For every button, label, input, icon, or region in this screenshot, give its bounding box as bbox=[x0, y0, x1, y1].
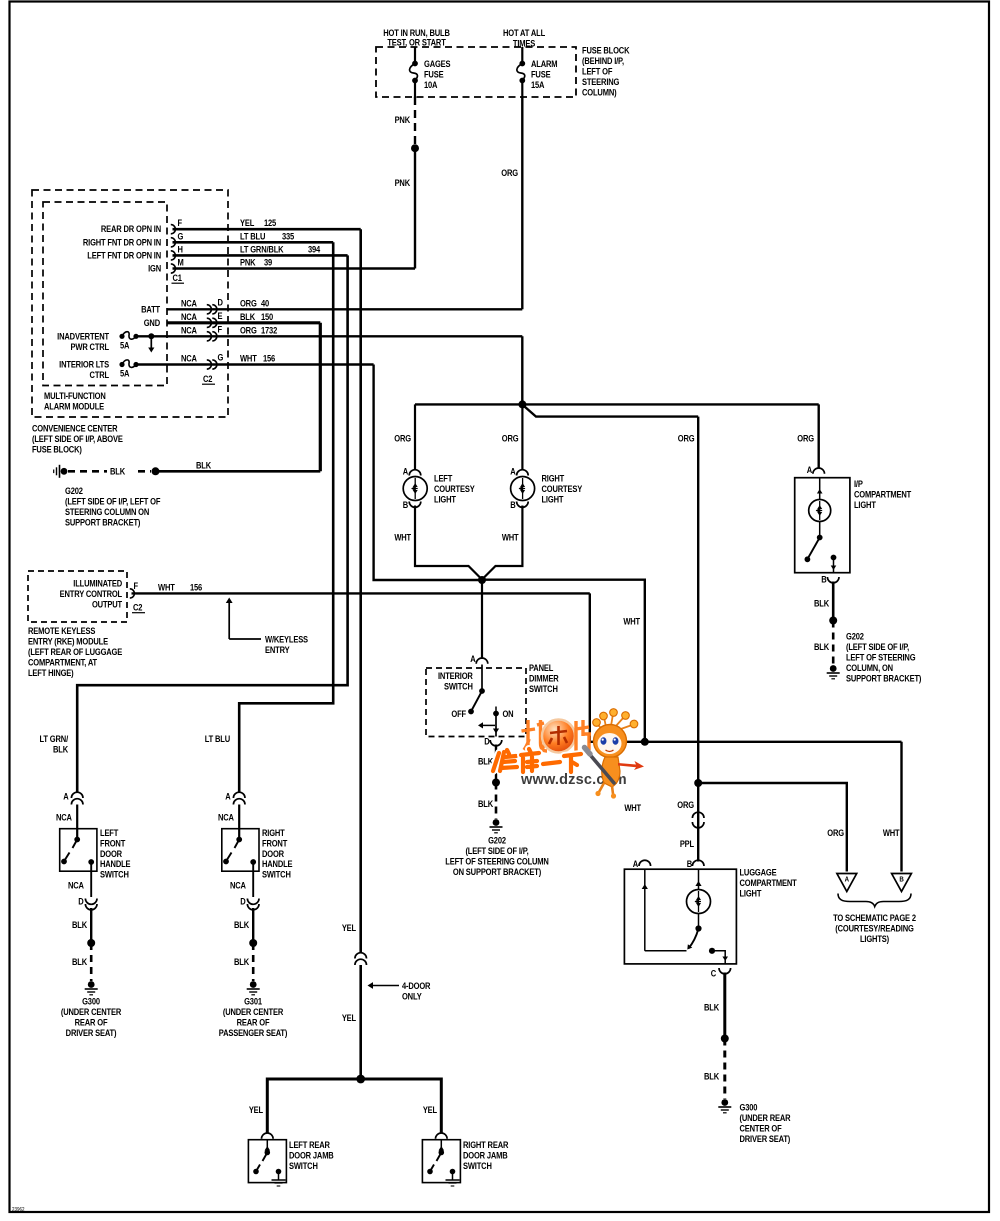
svg-text:MULTI-FUNCTION: MULTI-FUNCTION bbox=[44, 390, 106, 401]
multi-function alarm module inner box (dashed) bbox=[43, 202, 167, 386]
pin B luggage light bbox=[692, 860, 704, 866]
pin F RKE bbox=[130, 589, 135, 598]
svg-text:GAGES: GAGES bbox=[424, 58, 451, 69]
svg-text:ENTRY CONTROL: ENTRY CONTROL bbox=[60, 588, 122, 599]
switch right jamb arm bbox=[440, 1140, 442, 1150]
junction inadvertent branch bbox=[148, 333, 154, 339]
svg-text:394: 394 bbox=[308, 244, 321, 255]
svg-text:BLK: BLK bbox=[234, 956, 249, 967]
svg-text:PASSENGER SEAT): PASSENGER SEAT) bbox=[219, 1027, 288, 1038]
svg-text:(LEFT REAR OF LUGGAGE: (LEFT REAR OF LUGGAGE bbox=[28, 646, 123, 657]
ground G300 luggage bbox=[721, 1099, 728, 1106]
svg-text:5A: 5A bbox=[120, 340, 129, 351]
svg-text:A: A bbox=[403, 466, 408, 477]
wire YEL to jamb switches bbox=[267, 1079, 441, 1134]
wire BLK luggage bbox=[723, 973, 726, 1037]
svg-text:ON SUPPORT BRACKET): ON SUPPORT BRACKET) bbox=[453, 866, 542, 877]
svg-text:SWITCH: SWITCH bbox=[463, 1160, 492, 1171]
convenience center outer box (dashed) bbox=[32, 190, 228, 417]
svg-text:LT GRN/BLK: LT GRN/BLK bbox=[240, 244, 284, 255]
wire PNK vertical bbox=[414, 148, 416, 268]
wire LT BLU vertical and jog bbox=[239, 242, 333, 793]
svg-text:RIGHT REAR: RIGHT REAR bbox=[463, 1139, 508, 1150]
svg-text:A: A bbox=[470, 653, 475, 664]
arrow connector A to page 2 bbox=[837, 874, 857, 892]
pin B right courtesy bbox=[517, 502, 529, 508]
wire WHT junction to right bbox=[482, 580, 645, 742]
svg-text:ORG: ORG bbox=[677, 799, 694, 810]
svg-text:ORG: ORG bbox=[797, 433, 814, 444]
svg-text:A: A bbox=[510, 466, 515, 477]
svg-text:YEL: YEL bbox=[249, 1104, 263, 1115]
svg-text:WHT: WHT bbox=[502, 532, 520, 543]
svg-text:ORG: ORG bbox=[502, 433, 519, 444]
svg-text:DOOR: DOOR bbox=[100, 848, 122, 859]
svg-text:FUSE BLOCK: FUSE BLOCK bbox=[582, 45, 629, 56]
svg-text:GND: GND bbox=[144, 317, 160, 328]
svg-text:125: 125 bbox=[264, 217, 277, 228]
ground G202 interior switch bbox=[493, 819, 500, 826]
wire LT GRN/BLK vertical and jog bbox=[77, 255, 347, 793]
svg-text:(LEFT SIDE OF I/P, LEFT OF: (LEFT SIDE OF I/P, LEFT OF bbox=[65, 496, 160, 507]
svg-text:SWITCH: SWITCH bbox=[100, 869, 129, 880]
svg-text:M: M bbox=[177, 257, 183, 268]
svg-text:W/KEYLESS: W/KEYLESS bbox=[265, 634, 308, 645]
switch I/P light internal bbox=[819, 522, 821, 538]
pin B left courtesy bbox=[409, 502, 421, 508]
junction WHT luggage bbox=[641, 738, 649, 746]
svg-text:BLK: BLK bbox=[478, 798, 493, 809]
wire LT GRN/BLK 394 horizontal bbox=[173, 254, 348, 257]
svg-text:D: D bbox=[240, 896, 245, 907]
wire WHT to interior switch bbox=[481, 580, 483, 659]
svg-text:RIGHT FNT DR OPN IN: RIGHT FNT DR OPN IN bbox=[83, 237, 161, 248]
svg-text:D: D bbox=[217, 297, 222, 308]
svg-text:NCA: NCA bbox=[218, 812, 234, 823]
junction splice I/P BLK bbox=[829, 617, 837, 625]
svg-text:ORG: ORG bbox=[394, 433, 411, 444]
svg-text:10A: 10A bbox=[424, 79, 437, 90]
pin D left door handle switch bbox=[85, 899, 97, 905]
ground contact right jamb bbox=[450, 1169, 456, 1175]
svg-text:HANDLE: HANDLE bbox=[262, 858, 293, 869]
wire to left door handle switch bbox=[76, 805, 78, 840]
svg-text:156: 156 bbox=[190, 582, 203, 593]
svg-text:HANDLE: HANDLE bbox=[100, 858, 131, 869]
svg-text:WHT: WHT bbox=[158, 582, 176, 593]
wire luggage pin A internal bbox=[644, 869, 646, 951]
wire ORG branch to arrow A bbox=[698, 783, 847, 872]
I/P compartment light box bbox=[795, 478, 850, 573]
svg-text:ORG: ORG bbox=[827, 827, 844, 838]
svg-text:LT GRN/: LT GRN/ bbox=[40, 733, 69, 744]
svg-text:(UNDER REAR: (UNDER REAR bbox=[740, 1112, 791, 1123]
svg-text:G300: G300 bbox=[740, 1102, 758, 1113]
svg-text:LEFT REAR: LEFT REAR bbox=[289, 1139, 330, 1150]
svg-text:B: B bbox=[687, 858, 692, 869]
svg-text:156: 156 bbox=[263, 353, 276, 364]
ground G300 left door bbox=[88, 981, 95, 988]
svg-text:NCA: NCA bbox=[230, 880, 246, 891]
junction splice luggage BLK bbox=[721, 1035, 729, 1043]
svg-text:G202: G202 bbox=[65, 485, 83, 496]
svg-text:WHT: WHT bbox=[240, 353, 258, 364]
svg-text:YEL: YEL bbox=[423, 1104, 437, 1115]
svg-text:CENTER OF: CENTER OF bbox=[740, 1123, 782, 1134]
svg-text:COURTESY: COURTESY bbox=[542, 483, 583, 494]
svg-text:G301: G301 bbox=[244, 996, 262, 1007]
pin A interior switch bbox=[476, 658, 488, 664]
svg-text:DIMMER: DIMMER bbox=[529, 673, 559, 684]
svg-text:COLUMN): COLUMN) bbox=[582, 87, 617, 98]
svg-text:BLK: BLK bbox=[72, 919, 87, 930]
wire BLK 150 vertical to G202 bbox=[319, 323, 322, 472]
svg-text:COMPARTMENT: COMPARTMENT bbox=[854, 489, 912, 500]
svg-text:BLK: BLK bbox=[704, 1071, 719, 1082]
junction WHT courtesy bbox=[478, 576, 486, 584]
junction splice right door BLK bbox=[249, 939, 257, 947]
pin A left courtesy bbox=[409, 470, 421, 476]
wire inadvertent to pin F bbox=[138, 335, 522, 337]
svg-text:BLK: BLK bbox=[814, 641, 829, 652]
svg-text:YEL: YEL bbox=[342, 1012, 356, 1023]
svg-text:REMOTE KEYLESS: REMOTE KEYLESS bbox=[28, 625, 96, 636]
wire ORG to I/P compartment light bbox=[818, 404, 820, 468]
wire YEL vertical lower bbox=[359, 965, 362, 1079]
svg-text:G202: G202 bbox=[846, 631, 864, 642]
svg-text:PNK: PNK bbox=[395, 114, 411, 125]
svg-text:F: F bbox=[177, 217, 181, 228]
wire ORG bus horizontal bbox=[415, 403, 819, 405]
svg-text:5A: 5A bbox=[120, 368, 129, 379]
junction ORG bus bbox=[518, 400, 526, 408]
wire BLK dashed I/P bbox=[832, 621, 835, 666]
wire BLK left door bbox=[90, 908, 92, 941]
svg-text:STEERING: STEERING bbox=[582, 76, 620, 87]
svg-text:(UNDER CENTER: (UNDER CENTER bbox=[223, 1006, 283, 1017]
wire interior switch to pin D bbox=[495, 714, 497, 737]
svg-text:REAR DR OPN IN: REAR DR OPN IN bbox=[101, 223, 161, 234]
svg-text:LIGHTS): LIGHTS) bbox=[860, 933, 889, 944]
switch right door handle arm bbox=[236, 837, 242, 843]
svg-text:B: B bbox=[403, 499, 408, 510]
svg-text:ENTRY (RKE) MODULE: ENTRY (RKE) MODULE bbox=[28, 636, 108, 647]
wire BLK solid to module bbox=[156, 470, 321, 473]
svg-text:COURTESY: COURTESY bbox=[434, 483, 475, 494]
svg-text:SUPPORT BRACKET): SUPPORT BRACKET) bbox=[65, 517, 141, 528]
svg-text:NCA: NCA bbox=[181, 298, 197, 309]
pin A I/P light bbox=[813, 468, 825, 474]
svg-text:ORG: ORG bbox=[501, 167, 518, 178]
svg-text:23962: 23962 bbox=[12, 1207, 25, 1214]
svg-text:LEFT OF: LEFT OF bbox=[582, 66, 612, 77]
contact ON bbox=[493, 711, 499, 717]
svg-text:ALARM: ALARM bbox=[531, 58, 558, 69]
svg-text:LUGGAGE: LUGGAGE bbox=[740, 867, 777, 878]
svg-text:SWITCH: SWITCH bbox=[262, 869, 291, 880]
wire YEL 125 horizontal bbox=[173, 228, 361, 231]
switch left door handle arm bbox=[74, 837, 80, 843]
wire ORG to luggage light vertical bbox=[697, 417, 699, 783]
svg-text:I/P: I/P bbox=[854, 478, 863, 489]
contact luggage to pin C bbox=[709, 948, 715, 954]
svg-text:LIGHT: LIGHT bbox=[740, 888, 763, 899]
remote keyless entry module box (dashed) bbox=[28, 571, 127, 622]
svg-text:RIGHT: RIGHT bbox=[542, 473, 566, 484]
svg-text:SWITCH: SWITCH bbox=[289, 1160, 318, 1171]
svg-text:YEL: YEL bbox=[240, 217, 254, 228]
junction YEL split bbox=[356, 1075, 365, 1084]
svg-text:ILLUMINATED: ILLUMINATED bbox=[73, 578, 122, 589]
svg-text:DOOR: DOOR bbox=[262, 848, 284, 859]
pin B I/P light bbox=[827, 577, 839, 583]
svg-text:LEFT OF STEERING: LEFT OF STEERING bbox=[846, 652, 916, 663]
svg-text:TO SCHEMATIC PAGE 2: TO SCHEMATIC PAGE 2 bbox=[833, 912, 916, 923]
svg-text:CONVENIENCE CENTER: CONVENIENCE CENTER bbox=[32, 423, 118, 434]
svg-text:15A: 15A bbox=[531, 79, 544, 90]
svg-text:A: A bbox=[845, 876, 849, 884]
svg-text:150: 150 bbox=[261, 311, 274, 322]
svg-text:1732: 1732 bbox=[261, 325, 278, 336]
pin A luggage light bbox=[639, 860, 651, 866]
svg-text:BLK: BLK bbox=[110, 466, 125, 477]
left front door handle switch box bbox=[60, 829, 97, 872]
wire WHT right courtesy down bbox=[482, 506, 522, 580]
svg-text:LT BLU: LT BLU bbox=[205, 733, 230, 744]
callout W/KEYLESS ENTRY arrow bbox=[228, 601, 230, 640]
svg-text:BLK: BLK bbox=[814, 598, 829, 609]
svg-text:NCA: NCA bbox=[181, 311, 197, 322]
wire PPL to luggage pin B bbox=[697, 783, 699, 862]
svg-text:FRONT: FRONT bbox=[100, 838, 126, 849]
connector inline YEL 4-door bbox=[355, 953, 367, 959]
junction splice interior BLK bbox=[492, 779, 500, 787]
svg-text:LEFT FNT DR OPN IN: LEFT FNT DR OPN IN bbox=[87, 250, 161, 261]
svg-text:G: G bbox=[217, 352, 223, 363]
fuse interior lts 5A bbox=[119, 362, 124, 367]
svg-text:REAR OF: REAR OF bbox=[237, 1017, 270, 1028]
svg-text:BLK: BLK bbox=[234, 919, 249, 930]
svg-text:C1: C1 bbox=[173, 272, 183, 283]
svg-text:A: A bbox=[807, 464, 812, 475]
right rear door jamb switch box bbox=[422, 1140, 460, 1183]
svg-text:BLK: BLK bbox=[704, 1002, 719, 1013]
svg-text:F: F bbox=[133, 580, 137, 591]
pin D interior switch bbox=[490, 740, 502, 746]
svg-text:ENTRY: ENTRY bbox=[265, 644, 290, 655]
svg-text:(LEFT SIDE OF I/P,: (LEFT SIDE OF I/P, bbox=[465, 845, 528, 856]
svg-text:NCA: NCA bbox=[68, 880, 84, 891]
pin C luggage light bbox=[719, 968, 731, 974]
svg-text:LEFT: LEFT bbox=[100, 827, 119, 838]
svg-text:G300: G300 bbox=[82, 996, 100, 1007]
pin A right door handle switch bbox=[233, 792, 245, 798]
pin left rear door jamb switch bbox=[262, 1133, 274, 1139]
svg-text:YEL: YEL bbox=[342, 922, 356, 933]
svg-text:335: 335 bbox=[282, 231, 295, 242]
svg-text:TIMES: TIMES bbox=[513, 38, 536, 49]
junction splice on BLK bbox=[152, 467, 160, 475]
watermark dzsc logo bbox=[493, 720, 627, 789]
switch interior arm bbox=[481, 665, 483, 691]
svg-text:(LEFT SIDE OF I/P,: (LEFT SIDE OF I/P, bbox=[846, 641, 909, 652]
svg-text:DOOR JAMB: DOOR JAMB bbox=[463, 1150, 508, 1161]
label ON link arrow bbox=[480, 724, 495, 726]
svg-text:ORG: ORG bbox=[240, 298, 257, 309]
luggage compartment light box bbox=[624, 869, 736, 964]
svg-text:CTRL: CTRL bbox=[90, 369, 109, 380]
svg-text:B: B bbox=[821, 574, 826, 585]
svg-text:LIGHT: LIGHT bbox=[854, 499, 877, 510]
svg-text:WHT: WHT bbox=[624, 802, 642, 813]
svg-text:G: G bbox=[177, 231, 183, 242]
wire WHT branch to arrow B bbox=[900, 742, 902, 872]
svg-text:LEFT: LEFT bbox=[434, 473, 453, 484]
wire fuse feed right bbox=[521, 47, 523, 62]
svg-text:B: B bbox=[510, 499, 515, 510]
wire WHT left courtesy down bbox=[415, 506, 482, 580]
wire BLK dashed left door bbox=[90, 943, 93, 981]
svg-text:ORG: ORG bbox=[678, 433, 695, 444]
contact right door handle output bbox=[250, 859, 256, 865]
svg-text:C2: C2 bbox=[133, 602, 143, 613]
svg-text:PPL: PPL bbox=[680, 838, 694, 849]
svg-text:FUSE BLOCK): FUSE BLOCK) bbox=[32, 444, 82, 455]
svg-text:A: A bbox=[633, 858, 638, 869]
svg-text:COMPARTMENT: COMPARTMENT bbox=[740, 877, 798, 888]
wire BLK I/P light bbox=[832, 582, 835, 619]
svg-text:H: H bbox=[177, 244, 182, 255]
svg-text:ON: ON bbox=[502, 708, 513, 719]
svg-text:LEFT HINGE): LEFT HINGE) bbox=[28, 667, 74, 678]
wire ORG 40 horizontal bbox=[167, 308, 522, 310]
wire fuse feed left bbox=[414, 47, 416, 62]
svg-text:TEST, OR START: TEST, OR START bbox=[387, 37, 446, 48]
wire BLK dashed luggage bbox=[723, 1039, 726, 1100]
lamp luggage light internal bbox=[698, 869, 700, 890]
arrow connector B to page 2 bbox=[892, 874, 912, 892]
wire BLK 150 horizontal bbox=[167, 321, 320, 324]
svg-text:FUSE: FUSE bbox=[531, 69, 551, 80]
svg-text:PNK: PNK bbox=[240, 257, 256, 268]
svg-text:RIGHT: RIGHT bbox=[262, 827, 286, 838]
svg-text:INADVERTENT: INADVERTENT bbox=[57, 331, 110, 342]
svg-text:REAR OF: REAR OF bbox=[75, 1017, 108, 1028]
svg-text:WHT: WHT bbox=[883, 827, 901, 838]
wire right courtesy feed bbox=[521, 404, 523, 470]
wire YEL vertical upper bbox=[359, 229, 362, 953]
svg-text:INTERIOR LTS: INTERIOR LTS bbox=[59, 359, 109, 370]
watermark mascot bbox=[585, 709, 645, 799]
svg-text:(UNDER CENTER: (UNDER CENTER bbox=[61, 1006, 121, 1017]
pin right rear door jamb switch bbox=[436, 1133, 448, 1139]
ground G202 left symbol bbox=[61, 468, 68, 475]
wire WHT 156 from module pin G bbox=[374, 365, 480, 581]
svg-text:G202: G202 bbox=[488, 835, 506, 846]
svg-text:COLUMN, ON: COLUMN, ON bbox=[846, 662, 893, 673]
junction splice S210 bbox=[411, 144, 419, 152]
svg-text:INTERIOR: INTERIOR bbox=[438, 670, 473, 681]
svg-text:DRIVER SEAT): DRIVER SEAT) bbox=[66, 1027, 117, 1038]
svg-text:LEFT OF STEERING COLUMN: LEFT OF STEERING COLUMN bbox=[445, 856, 549, 867]
wire WHT RKE down and across bbox=[590, 593, 902, 741]
svg-text:NCA: NCA bbox=[181, 353, 197, 364]
right front door handle switch box bbox=[222, 829, 259, 872]
wire BLK dashed right door bbox=[252, 943, 255, 981]
fuse inadvertent 5A bbox=[119, 334, 124, 339]
wire ORG 1732 vertical bbox=[521, 336, 523, 404]
wire left courtesy feed bbox=[414, 404, 416, 470]
svg-text:BLK: BLK bbox=[240, 311, 255, 322]
panel dimmer switch box (dashed) bbox=[426, 668, 526, 737]
svg-text:FRONT: FRONT bbox=[262, 838, 288, 849]
svg-text:NCA: NCA bbox=[181, 325, 197, 336]
wire WHT 156 from RKE bbox=[132, 592, 590, 594]
pin A right courtesy bbox=[517, 470, 529, 476]
fuse ALARM FUSE 15A bbox=[519, 61, 525, 67]
svg-text:WHT: WHT bbox=[394, 532, 412, 543]
wire BLK right door bbox=[252, 908, 254, 941]
wire ORG diagonal branch bbox=[525, 407, 699, 417]
svg-text:BLK: BLK bbox=[53, 744, 68, 755]
svg-text:(LEFT SIDE OF I/P, ABOVE: (LEFT SIDE OF I/P, ABOVE bbox=[32, 433, 123, 444]
svg-text:STEERING COLUMN ON: STEERING COLUMN ON bbox=[65, 506, 149, 517]
svg-text:39: 39 bbox=[264, 257, 273, 268]
svg-text:LT BLU: LT BLU bbox=[240, 231, 265, 242]
switch luggage light internal bbox=[698, 914, 700, 929]
svg-text:SWITCH: SWITCH bbox=[529, 683, 558, 694]
contact left door handle output bbox=[88, 859, 94, 865]
svg-text:E: E bbox=[217, 310, 222, 321]
lamp LEFT COURTESY LIGHT bbox=[414, 477, 416, 478]
svg-text:4-DOOR: 4-DOOR bbox=[402, 980, 430, 991]
svg-text:HOT AT ALL: HOT AT ALL bbox=[503, 27, 545, 38]
svg-text:D: D bbox=[78, 896, 83, 907]
svg-text:(COURTESY/READING: (COURTESY/READING bbox=[835, 923, 914, 934]
ground contact left jamb bbox=[276, 1169, 282, 1175]
svg-text:40: 40 bbox=[261, 298, 270, 309]
svg-text:BLK: BLK bbox=[196, 460, 211, 471]
svg-text:IGN: IGN bbox=[148, 263, 161, 274]
svg-text:DRIVER SEAT): DRIVER SEAT) bbox=[740, 1133, 791, 1144]
svg-text:PNK: PNK bbox=[395, 177, 411, 188]
wire ORG from alarm fuse bbox=[521, 97, 523, 309]
svg-text:ONLY: ONLY bbox=[402, 991, 422, 1002]
svg-text:D: D bbox=[484, 736, 489, 747]
wire PNK 39 horizontal bbox=[173, 267, 416, 269]
pin D right door handle switch bbox=[247, 899, 259, 905]
svg-text:LIGHT: LIGHT bbox=[434, 494, 457, 505]
svg-text:C: C bbox=[711, 968, 716, 979]
svg-text:SWITCH: SWITCH bbox=[444, 681, 473, 692]
svg-text:B: B bbox=[899, 876, 903, 884]
svg-text:LIGHT: LIGHT bbox=[542, 494, 565, 505]
svg-text:PWR CTRL: PWR CTRL bbox=[71, 341, 110, 352]
svg-text:NCA: NCA bbox=[56, 812, 72, 823]
svg-text:A: A bbox=[63, 791, 68, 802]
wire to right door handle switch bbox=[238, 805, 240, 840]
wire BLK dashed to G202 bbox=[68, 470, 107, 473]
connector inline ORG/PPL bbox=[692, 812, 704, 818]
ground G202 I/P light bbox=[830, 665, 837, 672]
svg-text:OUTPUT: OUTPUT bbox=[92, 599, 123, 610]
svg-text:F: F bbox=[217, 324, 221, 335]
wire PNK dashed from gages fuse bbox=[414, 97, 416, 144]
pin A left door handle switch bbox=[71, 792, 83, 798]
lamp I/P light internal bbox=[819, 478, 821, 499]
left rear door jamb switch box bbox=[248, 1140, 286, 1183]
svg-text:OFF: OFF bbox=[451, 708, 466, 719]
